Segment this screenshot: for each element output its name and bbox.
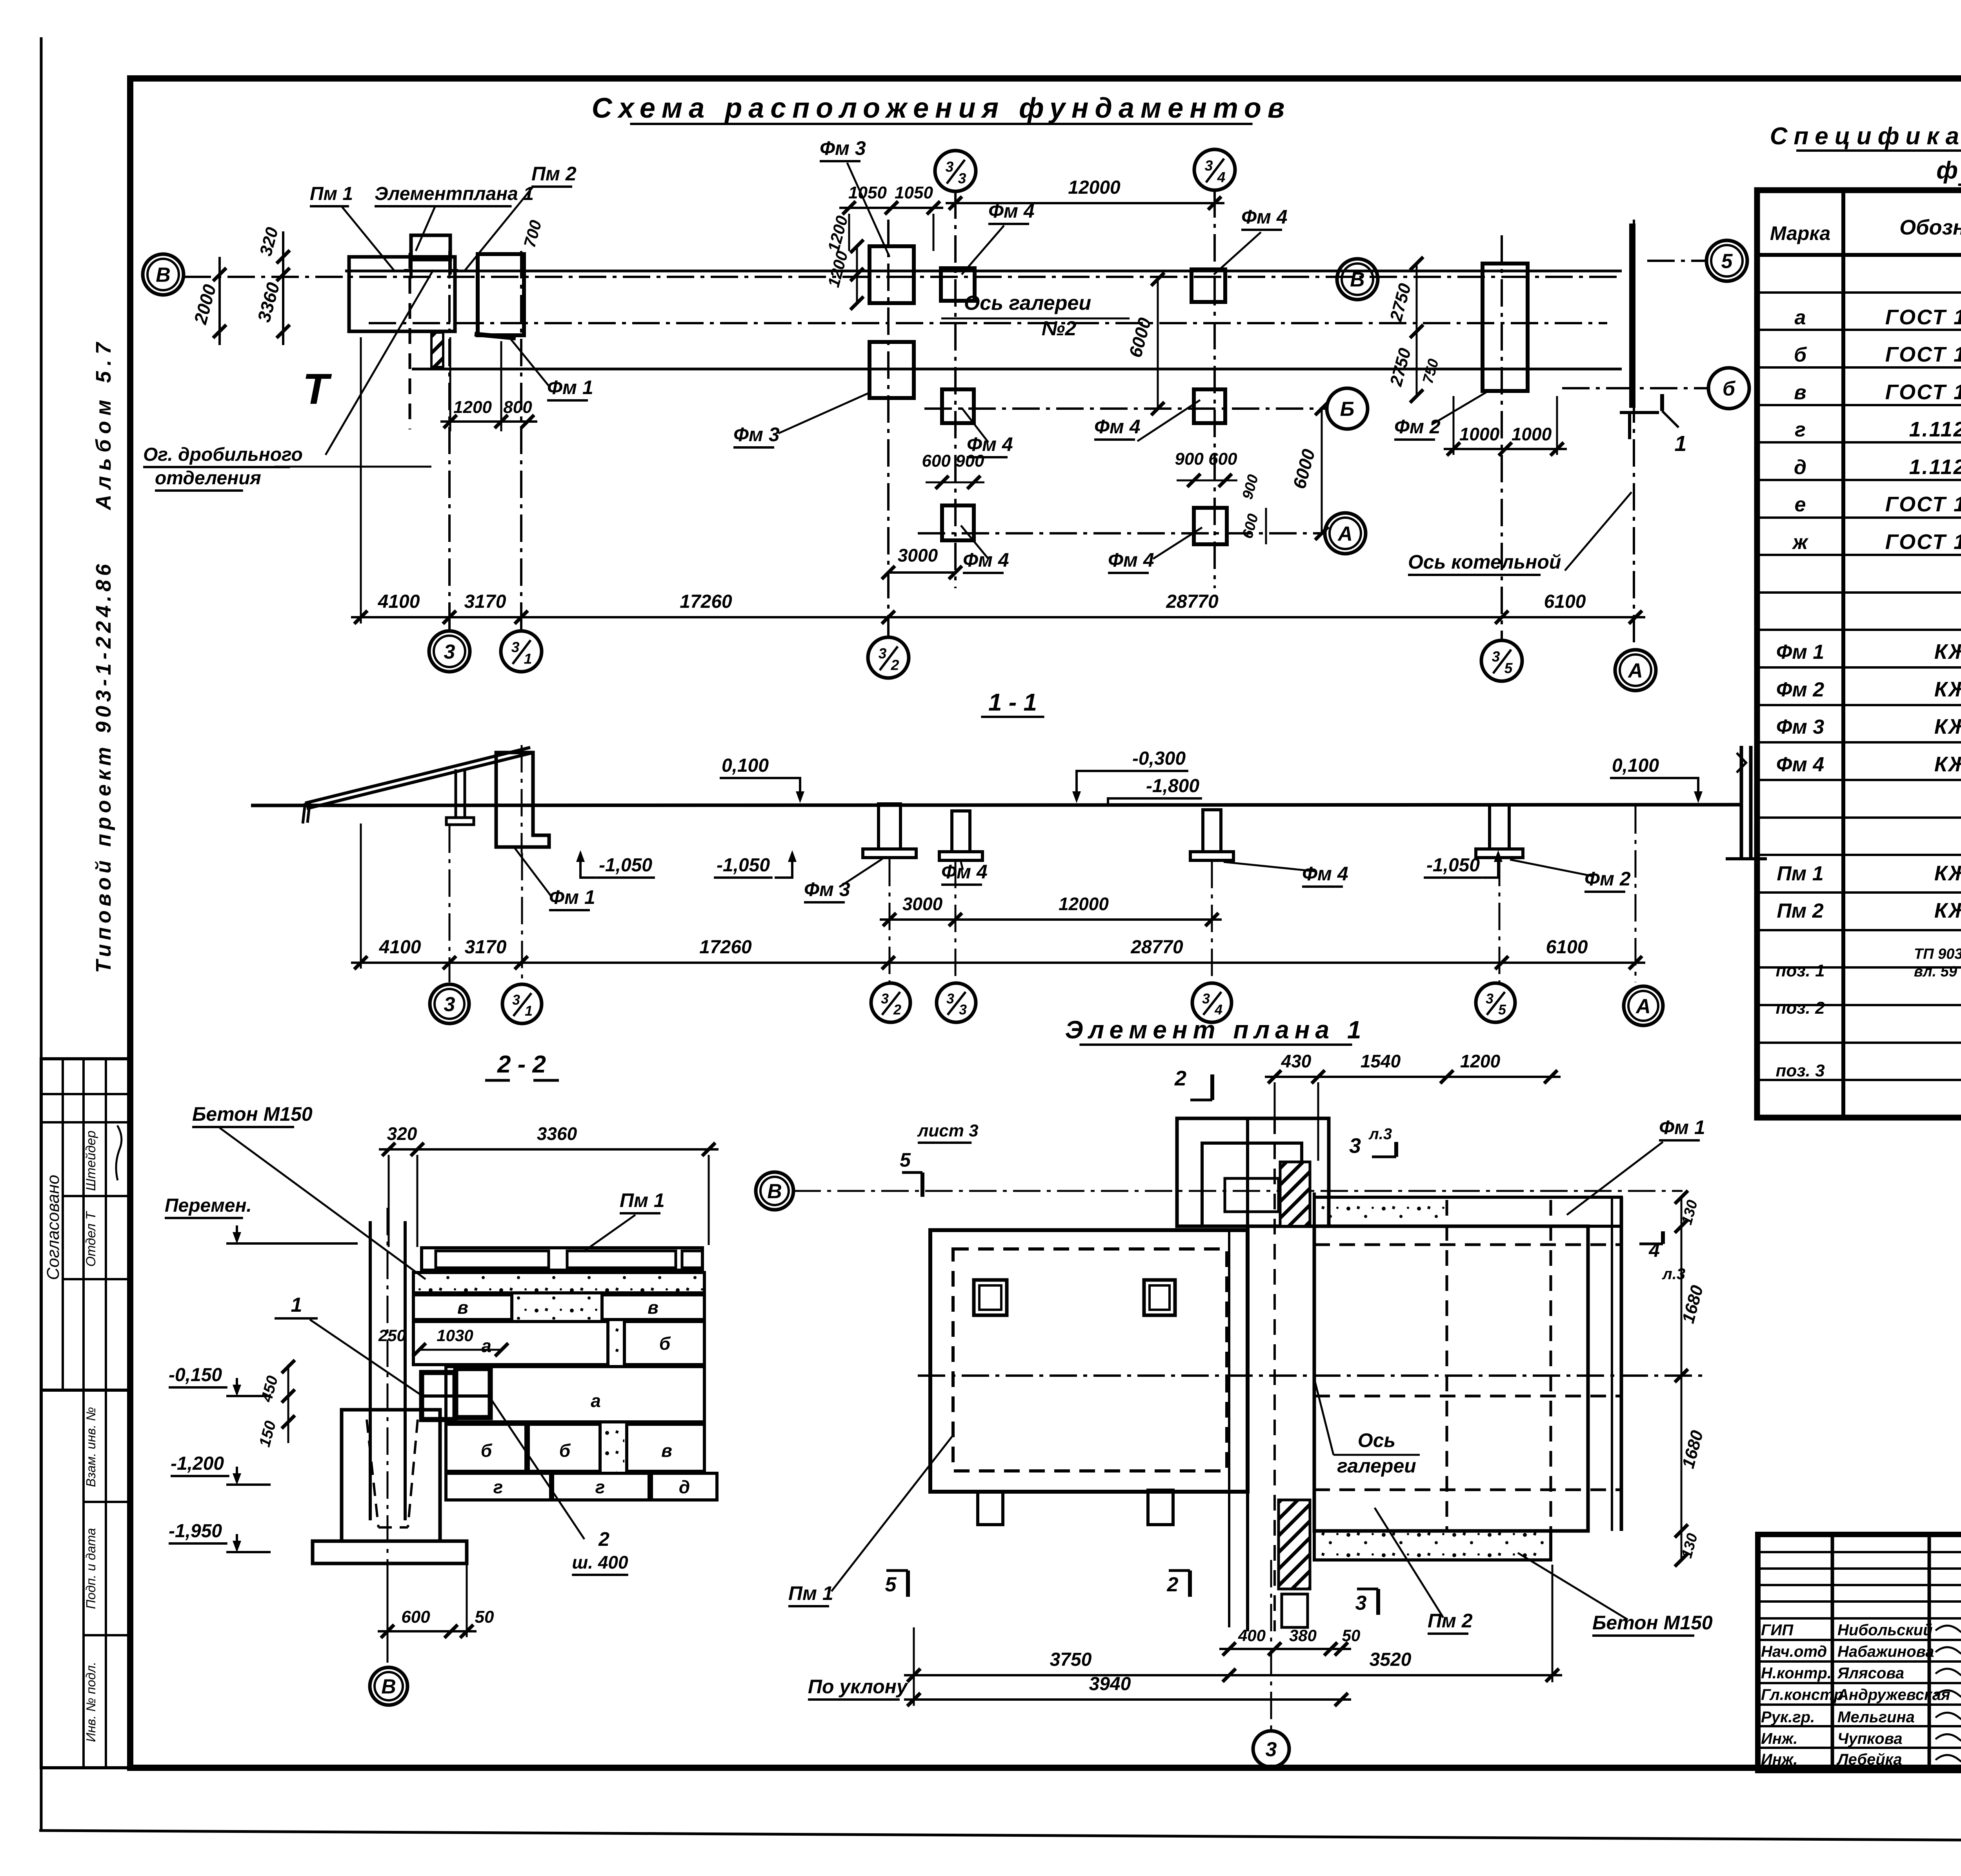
svg-text:Фм 4: Фм 4	[1108, 549, 1154, 571]
svg-text:3: 3	[444, 993, 455, 1016]
svg-text:3: 3	[881, 991, 889, 1007]
svg-text:250: 250	[378, 1326, 406, 1345]
svg-text:в: в	[648, 1297, 659, 1318]
svg-text:6000: 6000	[1289, 447, 1319, 491]
svg-text:Фм 4: Фм 4	[941, 861, 988, 883]
svg-text:Ось галереи: Ось галереи	[964, 292, 1091, 314]
svg-text:г: г	[1795, 418, 1806, 441]
svg-text:1: 1	[1674, 431, 1686, 456]
svg-text:Набажинова: Набажинова	[1837, 1643, 1934, 1660]
svg-text:отделения: отделения	[155, 468, 261, 489]
svg-text:5: 5	[885, 1573, 897, 1596]
svg-text:ТП 903-1-224.86: ТП 903-1-224.86	[1914, 946, 1961, 962]
svg-text:900 600: 900 600	[1175, 449, 1237, 469]
svg-text:3: 3	[511, 639, 520, 655]
svg-text:2: 2	[893, 1002, 901, 1018]
svg-text:КЖ5-5: КЖ5-5	[1934, 899, 1961, 922]
svg-text:Пм 1: Пм 1	[310, 184, 353, 204]
svg-text:Обозначение: Обозначение	[1899, 216, 1961, 239]
svg-text:Мельгина: Мельгина	[1837, 1709, 1915, 1726]
svg-text:3750: 3750	[1050, 1649, 1092, 1670]
svg-text:Фм 1: Фм 1	[1776, 641, 1824, 664]
svg-text:Чупкова: Чупкова	[1837, 1730, 1903, 1747]
svg-text:50: 50	[1342, 1626, 1361, 1645]
svg-text:1000: 1000	[1512, 424, 1552, 444]
svg-text:1680: 1680	[1679, 1283, 1707, 1325]
svg-text:700: 700	[520, 218, 545, 249]
svg-text:0,100: 0,100	[1612, 755, 1659, 776]
svg-text:ГОСТ 13579-78: ГОСТ 13579-78	[1885, 343, 1961, 366]
svg-text:поз. 1: поз. 1	[1775, 961, 1825, 980]
svg-text:12000: 12000	[1059, 894, 1109, 914]
svg-text:1200: 1200	[824, 249, 851, 289]
svg-text:3000: 3000	[898, 545, 938, 565]
svg-text:Б: Б	[1340, 398, 1355, 421]
svg-text:2: 2	[891, 657, 899, 673]
svg-text:В: В	[1350, 269, 1365, 291]
svg-text:Отдел Т: Отдел Т	[84, 1211, 98, 1267]
svg-text:галереи: галереи	[1337, 1455, 1416, 1477]
svg-text:Фм 2: Фм 2	[1776, 678, 1825, 701]
svg-text:28770: 28770	[1130, 937, 1183, 958]
svg-text:Марка: Марка	[1770, 222, 1830, 244]
svg-text:320: 320	[387, 1123, 417, 1144]
svg-text:Фм 4: Фм 4	[1094, 416, 1141, 438]
svg-text:2: 2	[598, 1528, 609, 1550]
svg-text:л.3: л.3	[1368, 1125, 1392, 1143]
svg-text:Элементплана 1: Элементплана 1	[375, 184, 534, 204]
svg-text:1: 1	[524, 651, 532, 667]
svg-text:3: 3	[1205, 157, 1213, 174]
svg-text:380: 380	[1289, 1626, 1317, 1645]
svg-text:28770: 28770	[1166, 591, 1219, 612]
svg-text:д: д	[1794, 456, 1806, 479]
svg-text:Пм 2: Пм 2	[1777, 900, 1823, 922]
svg-text:2 - 2: 2 - 2	[497, 1051, 546, 1078]
svg-text:Пм 2: Пм 2	[531, 163, 577, 185]
svg-text:Фм 1: Фм 1	[1659, 1116, 1705, 1138]
svg-text:2000: 2000	[190, 282, 220, 327]
svg-text:Альбом 5.7: Альбом 5.7	[92, 337, 115, 511]
svg-text:4100: 4100	[379, 937, 421, 958]
svg-text:Фм 4: Фм 4	[1776, 753, 1825, 776]
svg-text:поз. 3: поз. 3	[1775, 1061, 1825, 1080]
svg-text:0,100: 0,100	[722, 755, 769, 776]
svg-text:1000: 1000	[1459, 424, 1500, 444]
svg-text:лист 3: лист 3	[917, 1121, 979, 1140]
svg-text:ГОСТ 13579-78: ГОСТ 13579-78	[1885, 305, 1961, 329]
svg-text:Фм 3: Фм 3	[820, 137, 866, 159]
svg-text:ГОСТ 13579-78: ГОСТ 13579-78	[1885, 493, 1961, 516]
svg-text:3: 3	[958, 170, 966, 187]
svg-text:3940: 3940	[1089, 1674, 1131, 1694]
svg-text:150: 150	[256, 1419, 280, 1449]
svg-text:Инж.: Инж.	[1761, 1730, 1798, 1747]
svg-text:Гл.констр: Гл.констр	[1761, 1686, 1843, 1703]
svg-text:В: В	[156, 264, 171, 287]
svg-text:-0,150: -0,150	[169, 1365, 222, 1385]
svg-text:2: 2	[1174, 1067, 1186, 1090]
svg-text:320: 320	[256, 225, 282, 258]
svg-text:№2: №2	[1042, 317, 1077, 340]
svg-text:Согласовано: Согласовано	[44, 1175, 63, 1280]
svg-text:Инж.: Инж.	[1761, 1751, 1798, 1768]
svg-text:2750: 2750	[1386, 346, 1415, 389]
svg-text:В: В	[381, 1676, 396, 1698]
svg-text:Бетон М150: Бетон М150	[192, 1103, 313, 1125]
svg-text:400: 400	[1238, 1626, 1266, 1645]
svg-text:-1,950: -1,950	[169, 1521, 222, 1542]
svg-text:Фм 1: Фм 1	[547, 376, 593, 398]
svg-text:ш. 400: ш. 400	[572, 1552, 628, 1572]
svg-text:фундаментов: фундаментов	[1936, 157, 1961, 184]
svg-text:в: в	[1794, 381, 1806, 404]
svg-text:2: 2	[1167, 1573, 1179, 1596]
svg-text:а: а	[591, 1391, 601, 1411]
svg-text:6100: 6100	[1546, 937, 1588, 958]
svg-text:-1,050: -1,050	[717, 855, 770, 876]
svg-text:50: 50	[475, 1607, 494, 1627]
svg-text:Нач.отд: Нач.отд	[1761, 1643, 1827, 1660]
svg-text:Фм 2: Фм 2	[1584, 868, 1631, 890]
svg-text:а: а	[481, 1336, 491, 1356]
svg-text:Ог. дробильного: Ог. дробильного	[143, 444, 303, 465]
svg-text:600: 600	[401, 1607, 430, 1627]
svg-text:Н.контр.: Н.контр.	[1761, 1665, 1832, 1682]
svg-text:3170: 3170	[464, 591, 506, 612]
svg-text:3: 3	[946, 991, 954, 1007]
svg-text:ж: ж	[1792, 531, 1809, 554]
svg-text:Фм 1: Фм 1	[549, 886, 595, 908]
svg-text:г: г	[493, 1477, 503, 1497]
svg-text:1 - 1: 1 - 1	[988, 689, 1037, 716]
svg-text:Фм 4: Фм 4	[1241, 206, 1288, 228]
svg-text:1200: 1200	[453, 398, 492, 417]
svg-text:-0,300: -0,300	[1132, 748, 1186, 769]
svg-text:1: 1	[525, 1003, 533, 1019]
svg-text:3360: 3360	[253, 280, 284, 324]
svg-text:Пм 1: Пм 1	[788, 1582, 833, 1604]
svg-text:3: 3	[946, 158, 954, 175]
svg-text:Штейдер: Штейдер	[84, 1131, 98, 1191]
svg-text:в: в	[661, 1440, 672, 1461]
svg-text:Пм 1: Пм 1	[620, 1189, 665, 1211]
svg-text:3170: 3170	[465, 937, 507, 958]
svg-text:4: 4	[1217, 169, 1226, 185]
svg-text:а: а	[1795, 306, 1806, 329]
svg-text:Фм 4: Фм 4	[1302, 863, 1348, 885]
svg-text:Фм 3: Фм 3	[733, 424, 780, 445]
svg-text:1.112-5 в.2: 1.112-5 в.2	[1909, 418, 1961, 441]
svg-text:1050: 1050	[895, 183, 933, 202]
svg-text:А: А	[1627, 660, 1643, 682]
svg-text:Фм 3: Фм 3	[1776, 716, 1825, 738]
svg-text:-1,050: -1,050	[1426, 855, 1480, 876]
svg-text:5: 5	[1504, 660, 1513, 676]
svg-text:5: 5	[1498, 1002, 1506, 1018]
svg-text:17260: 17260	[680, 591, 732, 612]
svg-text:1540: 1540	[1361, 1051, 1401, 1071]
svg-text:800: 800	[503, 398, 532, 417]
svg-text:3: 3	[1486, 991, 1493, 1007]
svg-text:По уклону: По уклону	[808, 1676, 908, 1698]
svg-text:А: А	[1635, 995, 1651, 1018]
svg-text:1030: 1030	[437, 1326, 473, 1345]
svg-text:Перемен.: Перемен.	[165, 1195, 252, 1216]
svg-text:5: 5	[900, 1149, 911, 1171]
svg-text:г: г	[595, 1477, 605, 1497]
svg-text:1.112-5 в.2: 1.112-5 в.2	[1909, 455, 1961, 479]
svg-text:Т: Т	[302, 365, 332, 413]
svg-text:1200: 1200	[824, 214, 851, 254]
svg-text:КЖ5-6: КЖ5-6	[1934, 715, 1961, 738]
svg-text:в: в	[457, 1297, 468, 1318]
svg-text:3: 3	[1202, 991, 1210, 1007]
svg-text:КЖ5-3: КЖ5-3	[1934, 862, 1961, 885]
svg-text:Элемент плана 1: Элемент плана 1	[1065, 1016, 1367, 1044]
svg-text:Рук.гр.: Рук.гр.	[1761, 1709, 1815, 1726]
svg-text:Ялясова: Ялясова	[1837, 1665, 1904, 1682]
svg-text:5: 5	[1721, 250, 1733, 273]
svg-text:Бетон М150: Бетон М150	[1592, 1612, 1713, 1634]
svg-text:ГОСТ 13579-78: ГОСТ 13579-78	[1885, 380, 1961, 404]
svg-text:1200: 1200	[1460, 1051, 1501, 1071]
svg-text:600 900: 600 900	[922, 451, 984, 471]
svg-text:Ось котельной: Ось котельной	[1408, 551, 1561, 573]
svg-text:3: 3	[879, 645, 887, 662]
svg-text:600: 600	[1239, 512, 1262, 540]
svg-text:450: 450	[258, 1374, 281, 1404]
svg-text:Спецификация к схеме расположе: Спецификация к схеме расположения	[1770, 123, 1961, 150]
svg-text:1050: 1050	[848, 183, 887, 202]
svg-text:6100: 6100	[1544, 591, 1586, 612]
svg-text:Фм 4: Фм 4	[963, 549, 1009, 571]
svg-text:б: б	[1794, 344, 1807, 366]
svg-text:750: 750	[1420, 357, 1442, 385]
svg-text:А: А	[1337, 523, 1353, 545]
svg-text:2750: 2750	[1386, 281, 1415, 324]
svg-text:4100: 4100	[378, 591, 420, 612]
svg-text:Фм 2: Фм 2	[1394, 416, 1441, 438]
svg-text:ГОСТ 13579-78: ГОСТ 13579-78	[1885, 530, 1961, 554]
svg-text:430: 430	[1281, 1051, 1312, 1071]
svg-text:4: 4	[1648, 1239, 1660, 1261]
svg-text:-1,200: -1,200	[171, 1453, 224, 1474]
svg-text:-1,800: -1,800	[1146, 776, 1199, 796]
svg-text:Взам. инв. №: Взам. инв. №	[84, 1407, 98, 1487]
svg-text:12000: 12000	[1068, 177, 1121, 198]
svg-text:Пм 1: Пм 1	[1777, 862, 1823, 885]
svg-text:б: б	[1723, 378, 1736, 400]
svg-text:3520: 3520	[1370, 1649, 1412, 1670]
svg-text:е: е	[1795, 493, 1806, 516]
svg-text:Инв. № подл.: Инв. № подл.	[84, 1662, 98, 1742]
svg-text:Фм 3: Фм 3	[804, 878, 850, 900]
svg-text:1680: 1680	[1679, 1428, 1707, 1471]
svg-text:б: б	[559, 1440, 571, 1461]
svg-text:3360: 3360	[537, 1123, 577, 1144]
svg-text:Пм 2: Пм 2	[1428, 1610, 1473, 1632]
svg-text:17260: 17260	[699, 937, 752, 958]
svg-text:б: б	[481, 1440, 493, 1461]
svg-text:КЖ5-5: КЖ5-5	[1934, 678, 1961, 701]
svg-text:3: 3	[444, 641, 455, 664]
svg-text:3: 3	[959, 1002, 967, 1018]
svg-text:3: 3	[1355, 1592, 1367, 1614]
svg-text:Ось: Ось	[1358, 1429, 1395, 1451]
svg-text:поз. 2: поз. 2	[1775, 998, 1825, 1018]
svg-text:3: 3	[1266, 1738, 1277, 1761]
svg-text:КЖ5-6: КЖ5-6	[1934, 753, 1961, 776]
svg-text:900: 900	[1239, 473, 1262, 501]
svg-text:Типовой проект 903-1-224.86: Типовой проект 903-1-224.86	[92, 560, 115, 973]
svg-text:вл. 59: вл. 59	[1914, 963, 1957, 980]
svg-text:3: 3	[512, 992, 520, 1008]
svg-text:3000: 3000	[902, 894, 943, 914]
svg-text:3: 3	[1492, 648, 1500, 665]
svg-text:1: 1	[291, 1294, 302, 1316]
svg-text:л.3: л.3	[1662, 1265, 1685, 1283]
svg-text:Нибольский: Нибольский	[1837, 1622, 1933, 1639]
svg-text:Схема расположения фундаментов: Схема расположения фундаментов	[592, 93, 1291, 124]
svg-text:ГИП: ГИП	[1761, 1622, 1794, 1639]
svg-text:Подп. и дата: Подп. и дата	[84, 1528, 98, 1609]
svg-text:б: б	[659, 1333, 671, 1354]
svg-text:3: 3	[1349, 1134, 1361, 1158]
svg-text:КЖ5-5: КЖ5-5	[1934, 640, 1961, 664]
svg-text:Андружевская: Андружевская	[1837, 1686, 1950, 1703]
svg-text:В: В	[767, 1180, 782, 1203]
svg-text:-1,050: -1,050	[599, 855, 652, 876]
svg-text:д: д	[679, 1477, 690, 1497]
svg-text:Лебейка: Лебейка	[1836, 1751, 1902, 1768]
